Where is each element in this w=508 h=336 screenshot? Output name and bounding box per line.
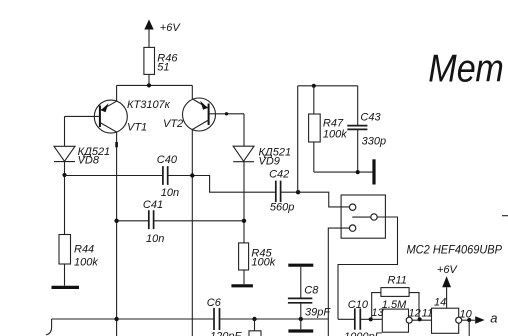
svg-text:C8: C8 bbox=[304, 285, 319, 297]
svg-text:+6V: +6V bbox=[160, 22, 182, 34]
svg-text:13: 13 bbox=[371, 307, 384, 319]
svg-text:39pF: 39pF bbox=[305, 307, 331, 319]
svg-text:14: 14 bbox=[434, 297, 446, 309]
svg-text:+6V: +6V bbox=[437, 264, 459, 276]
svg-text:100k: 100k bbox=[251, 257, 275, 269]
svg-text:10: 10 bbox=[460, 308, 473, 320]
svg-text:120pF: 120pF bbox=[210, 331, 242, 336]
svg-text:C40: C40 bbox=[157, 154, 178, 166]
svg-text:VD8: VD8 bbox=[78, 155, 100, 167]
svg-text:R44: R44 bbox=[74, 244, 94, 256]
svg-text:Мет: Мет bbox=[428, 48, 504, 91]
svg-text:560p: 560p bbox=[270, 202, 294, 214]
svg-text:1000pF: 1000pF bbox=[344, 331, 383, 336]
svg-text:10n: 10n bbox=[161, 187, 179, 199]
svg-text:C6: C6 bbox=[207, 297, 222, 309]
svg-text:VT1: VT1 bbox=[127, 122, 147, 134]
svg-text:C42: C42 bbox=[269, 169, 289, 181]
svg-text:100k: 100k bbox=[74, 257, 98, 269]
svg-text:C43: C43 bbox=[360, 112, 381, 124]
svg-text:R11: R11 bbox=[388, 275, 407, 287]
svg-text:a: a bbox=[490, 311, 497, 326]
svg-text:10n: 10n bbox=[146, 233, 164, 245]
svg-text:КТ3107к: КТ3107к bbox=[127, 99, 171, 111]
svg-text:51: 51 bbox=[157, 62, 169, 74]
svg-text:C10: C10 bbox=[348, 299, 369, 311]
svg-text:VT2: VT2 bbox=[163, 118, 183, 130]
svg-text:C41: C41 bbox=[143, 199, 163, 211]
svg-text:12: 12 bbox=[409, 307, 421, 319]
svg-text:MC2 HEF4069UBP: MC2 HEF4069UBP bbox=[407, 243, 503, 257]
svg-text:330p: 330p bbox=[362, 136, 386, 148]
svg-text:100k: 100k bbox=[323, 129, 347, 141]
svg-text:VD9: VD9 bbox=[259, 156, 280, 168]
